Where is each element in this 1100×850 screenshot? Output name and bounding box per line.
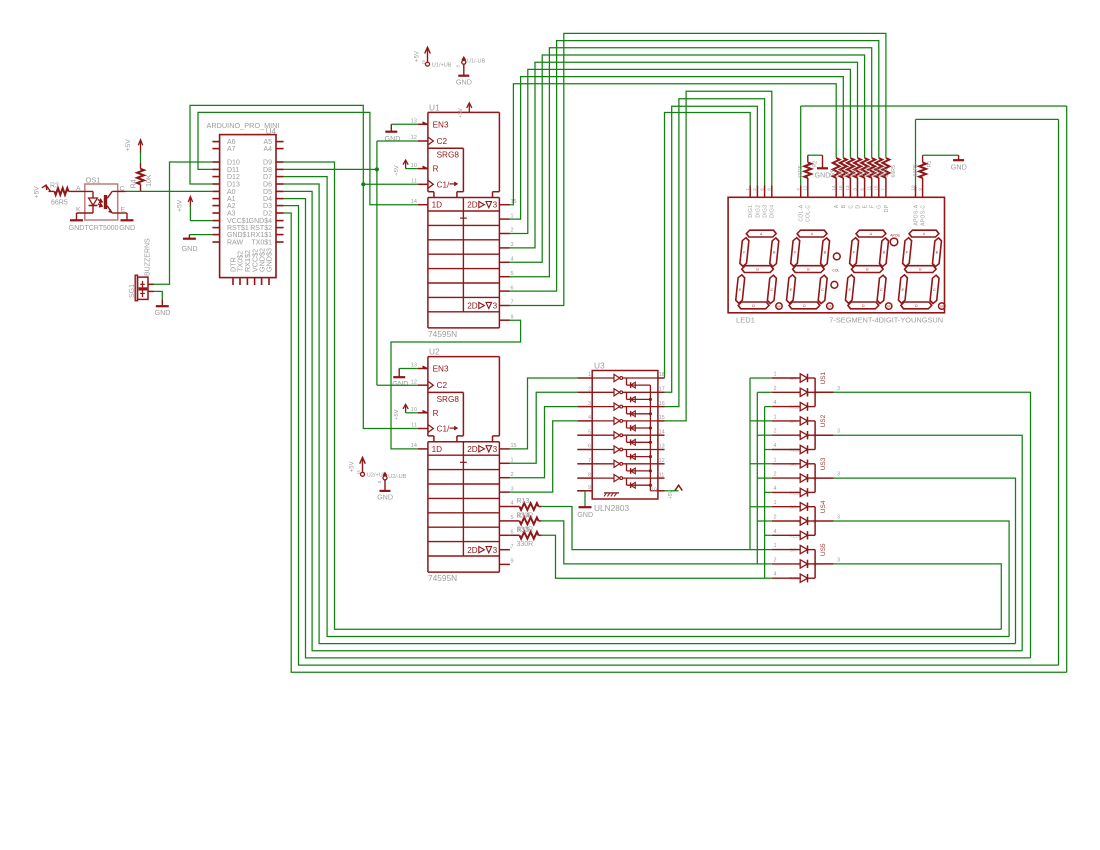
svg-text:TCRT5000: TCRT5000 [84,225,118,232]
svg-text:1: 1 [511,213,514,219]
svg-text:10: 10 [411,407,417,413]
svg-text:DP: DP [887,304,891,308]
svg-text:A0: A0 [227,189,236,196]
svg-text:RED: RED [790,490,801,496]
svg-text:+5V: +5V [350,461,356,472]
svg-text:D12: D12 [227,174,240,181]
svg-text:US4: US4 [820,500,827,513]
svg-text:+5V: +5V [394,409,400,420]
svg-text:4: 4 [773,443,776,449]
svg-text:DP: DP [940,304,944,308]
svg-text:U2/-UB: U2/-UB [388,474,407,480]
svg-text:F: F [906,251,909,255]
svg-text:3: 3 [493,302,498,311]
svg-text:2: 2 [511,228,514,234]
svg-text:RST$2: RST$2 [250,225,272,232]
svg-text:A5: A5 [263,139,272,146]
svg-text:R: R [433,165,439,174]
svg-text:9: 9 [511,314,514,320]
svg-text:U4: U4 [266,127,277,136]
svg-text:GND$1: GND$1 [227,232,250,239]
svg-text:R13: R13 [517,498,530,505]
svg-text:66R5: 66R5 [891,165,897,178]
svg-text:A1: A1 [227,196,236,203]
svg-text:U2: U2 [429,347,440,357]
svg-text:GR: GR [790,462,798,468]
svg-text:A: A [834,204,840,208]
svg-text:+5V: +5V [34,186,41,199]
svg-text:2D: 2D [467,302,478,311]
svg-text:14: 14 [659,429,665,435]
svg-text:OS1: OS1 [86,176,101,185]
svg-text:3: 3 [493,445,498,454]
svg-text:SRG8: SRG8 [437,151,460,160]
svg-text:2: 2 [773,472,776,478]
svg-text:RED: RED [790,448,801,454]
svg-text:GND: GND [119,223,135,232]
svg-text:13: 13 [845,185,851,191]
svg-text:16: 16 [421,59,426,64]
svg-text:D13: D13 [227,182,240,189]
svg-text:16: 16 [659,401,665,407]
svg-text:2: 2 [773,386,776,392]
svg-text:D4: D4 [263,196,272,203]
svg-text:RAW: RAW [227,240,243,247]
svg-text:B: B [841,204,847,208]
svg-text:4: 4 [773,529,776,535]
svg-text:US5: US5 [820,543,827,556]
svg-text:3: 3 [493,201,498,210]
svg-text:R2: R2 [813,161,819,168]
svg-text:EN3: EN3 [433,120,449,129]
svg-text:1: 1 [773,372,776,378]
svg-text:R4: R4 [131,179,138,188]
svg-text:3: 3 [837,515,840,521]
svg-text:3: 3 [493,546,498,555]
svg-text:10: 10 [651,488,657,494]
svg-text:RX1$1: RX1$1 [251,232,273,239]
svg-text:2D: 2D [467,445,478,454]
svg-text:7-SEGMENT-4DIGIT-YOUNGSUN: 7-SEGMENT-4DIGIT-YOUNGSUN [829,316,943,325]
svg-text:D10: D10 [227,160,240,167]
svg-text:13: 13 [411,119,417,125]
svg-text:16: 16 [838,185,844,191]
svg-text:12: 12 [659,458,665,464]
svg-text:A2: A2 [227,203,236,210]
svg-text:LED1: LED1 [736,316,755,325]
svg-text:F: F [853,251,856,255]
svg-text:GND$3: GND$3 [265,248,274,272]
svg-text:1D: 1D [432,445,443,454]
svg-text:13: 13 [659,444,665,450]
svg-text:R15: R15 [517,527,530,534]
svg-text:D7: D7 [263,174,272,181]
svg-text:2: 2 [773,429,776,435]
svg-text:5: 5 [859,188,865,191]
svg-text:A4: A4 [263,146,272,153]
svg-text:66R5: 66R5 [913,164,919,177]
svg-text:DIG3: DIG3 [763,205,769,218]
svg-text:GND: GND [377,493,393,502]
svg-text:U1/+UB: U1/+UB [432,62,452,68]
svg-text:C2: C2 [437,137,448,146]
svg-text:D3: D3 [263,203,272,210]
svg-text:F: F [870,205,876,208]
svg-text:3: 3 [588,401,591,407]
svg-text:1: 1 [773,543,776,549]
svg-text:2: 2 [773,515,776,521]
svg-text:3: 3 [852,188,858,191]
svg-text:+5V: +5V [394,165,400,176]
svg-text:GR: GR [790,548,798,554]
svg-text:D5: D5 [263,189,272,196]
svg-text:U1/-UB: U1/-UB [467,59,486,65]
svg-text:D2: D2 [263,211,272,218]
svg-text:14: 14 [411,443,417,449]
svg-text:2: 2 [588,387,591,393]
svg-text:8: 8 [767,188,773,191]
svg-text:13: 13 [411,363,417,369]
svg-text:A: A [76,186,81,193]
svg-text:U3: U3 [594,361,605,371]
svg-text:11: 11 [411,179,417,185]
svg-text:D6: D6 [263,182,272,189]
svg-text:GND: GND [577,510,593,519]
svg-text:15: 15 [874,185,880,191]
svg-text:+5V: +5V [415,51,421,62]
svg-text:66R5: 66R5 [51,199,68,206]
svg-text:2: 2 [773,557,776,563]
svg-text:11: 11 [659,472,665,478]
svg-text:DP: DP [884,204,890,212]
svg-text:RED: RED [790,576,801,582]
svg-text:U1: U1 [429,102,440,112]
svg-text:F: F [743,251,746,255]
svg-text:1: 1 [773,457,776,463]
svg-text:RED: RED [790,405,801,411]
svg-text:5: 5 [511,271,514,277]
svg-text:9: 9 [917,188,923,191]
svg-text:COL: COL [832,269,839,273]
svg-text:4: 4 [773,400,776,406]
svg-text:+5V: +5V [458,108,464,118]
svg-text:R10: R10 [866,166,872,176]
svg-text:A6: A6 [227,139,236,146]
svg-text:APOS-A: APOS-A [913,204,919,225]
svg-text:74595N: 74595N [428,573,457,583]
svg-text:D: D [855,205,861,209]
svg-text:14: 14 [831,185,837,191]
svg-text:+5V: +5V [125,139,132,152]
svg-text:4: 4 [773,572,776,578]
svg-text:9: 9 [588,485,591,491]
svg-text:COL-A: COL-A [799,204,805,221]
svg-text:G: G [877,205,883,209]
svg-text:A3: A3 [227,211,236,218]
svg-text:3: 3 [511,242,514,248]
svg-text:R14: R14 [517,512,530,519]
svg-text:GND: GND [951,163,967,172]
svg-text:1: 1 [588,372,591,378]
svg-text:15: 15 [511,443,517,449]
svg-text:R6: R6 [838,169,844,176]
svg-text:16: 16 [356,470,361,475]
svg-text:2: 2 [511,472,514,478]
svg-text:D11: D11 [227,167,239,174]
svg-text:15: 15 [659,415,665,421]
svg-text:330R: 330R [517,541,534,548]
svg-text:D9: D9 [263,160,272,167]
svg-text:6: 6 [759,188,765,191]
svg-text:7: 7 [588,458,591,464]
svg-text:66R5: 66R5 [798,165,804,178]
svg-text:C1/: C1/ [437,180,450,189]
svg-text:6: 6 [511,285,514,291]
svg-text:SG1: SG1 [129,284,136,298]
svg-text:C2: C2 [437,381,448,390]
svg-text:R11: R11 [873,167,879,176]
svg-text:DIG4: DIG4 [770,205,776,218]
svg-text:1: 1 [773,414,776,420]
svg-text:K: K [76,207,81,214]
svg-text:12: 12 [411,379,417,385]
svg-text:R: R [433,409,439,418]
svg-text:R3: R3 [50,183,59,190]
svg-text:14: 14 [411,199,417,205]
svg-text:APOS: APOS [890,233,900,237]
svg-text:US2: US2 [820,414,827,427]
svg-text:4: 4 [796,188,802,191]
svg-text:GR: GR [790,505,798,511]
svg-text:R12: R12 [880,166,886,176]
svg-text:5: 5 [588,429,591,435]
svg-text:GND$4: GND$4 [249,218,272,225]
svg-text:E: E [121,207,126,214]
svg-text:GND: GND [456,77,472,86]
svg-text:4: 4 [588,415,591,421]
svg-text:GND: GND [392,379,408,388]
svg-text:DIG2: DIG2 [755,205,761,218]
svg-text:R1: R1 [927,161,933,168]
svg-text:APOS-C: APOS-C [921,205,927,226]
svg-text:7: 7 [511,300,514,306]
svg-text:D8: D8 [263,167,272,174]
svg-text:E: E [863,204,869,208]
svg-text:3: 3 [837,472,840,478]
svg-text:7: 7 [511,544,514,550]
svg-text:TX0$1: TX0$1 [251,240,272,247]
svg-text:US3: US3 [820,457,827,470]
svg-text:9: 9 [511,559,514,565]
svg-text:1: 1 [773,500,776,506]
svg-text:12: 12 [411,135,417,141]
svg-text:74595N: 74595N [428,329,457,339]
svg-text:+5V: +5V [177,199,184,212]
svg-text:GND: GND [69,223,85,232]
svg-text:3: 3 [511,486,514,492]
svg-text:EN3: EN3 [433,365,449,374]
svg-text:1: 1 [511,458,514,464]
svg-text:3: 3 [837,557,840,563]
svg-text:2D: 2D [467,201,478,210]
svg-text:3: 3 [837,386,840,392]
svg-text:18: 18 [659,372,665,378]
svg-text:DP: DP [777,304,781,308]
svg-text:GND: GND [155,308,171,317]
svg-text:2: 2 [752,188,758,191]
svg-text:4: 4 [511,257,514,263]
svg-text:10: 10 [411,163,417,169]
svg-text:3: 3 [837,429,840,435]
svg-text:US1: US1 [820,371,827,384]
svg-text:F: F [794,251,797,255]
svg-text:GR: GR [790,376,798,382]
svg-text:10K: 10K [146,174,153,187]
svg-text:RST$1: RST$1 [227,225,249,232]
svg-text:RED: RED [790,533,801,539]
svg-text:6: 6 [588,444,591,450]
svg-text:12: 12 [803,185,809,191]
svg-text:GR: GR [790,419,798,425]
svg-text:A7: A7 [227,146,236,153]
svg-text:VCC$1: VCC$1 [227,218,250,225]
svg-text:+5V: +5V [668,489,674,499]
svg-text:11: 11 [411,423,417,429]
svg-text:2D: 2D [467,546,478,555]
svg-text:17: 17 [659,387,665,393]
svg-text:DP: DP [828,304,832,308]
svg-text:DIG1: DIG1 [748,205,754,218]
svg-text:GND: GND [182,244,198,253]
svg-text:ULN2803: ULN2803 [594,503,629,513]
svg-text:GND: GND [815,171,831,180]
svg-text:R8: R8 [852,169,858,176]
svg-text:1D: 1D [432,201,443,210]
svg-text:R9: R9 [859,169,865,176]
svg-text:COL-C: COL-C [806,205,812,222]
svg-text:BUZZERNS: BUZZERNS [144,238,151,276]
svg-text:C: C [848,205,854,209]
svg-text:R5: R5 [831,169,837,176]
svg-text:8: 8 [588,472,591,478]
svg-text:11: 11 [867,185,873,190]
svg-text:SRG8: SRG8 [437,395,460,404]
svg-text:C1/: C1/ [437,425,450,434]
svg-text:7: 7 [881,188,887,191]
svg-text:R7: R7 [845,169,851,176]
svg-text:10: 10 [910,185,916,191]
svg-text:4: 4 [773,486,776,492]
svg-text:1: 1 [745,188,751,191]
